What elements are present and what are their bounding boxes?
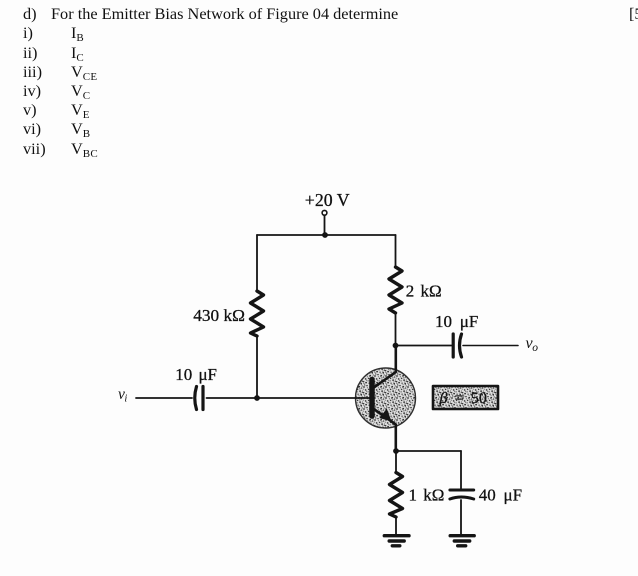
supply terminal circle [322, 210, 327, 215]
label 10 uF input [175, 365, 217, 384]
capacitor 40 uF bypass [450, 490, 474, 499]
resistor 2 kOhm [389, 267, 402, 313]
list item iv) VC [23, 81, 41, 101]
list item iii) VCE [23, 62, 42, 82]
transistor Q1 circle body [356, 368, 416, 428]
list item i) IB [23, 23, 33, 43]
svg-text:430 kΩ: 430 kΩ [193, 306, 245, 325]
wire emitter node to 1k resistor [395, 451, 397, 473]
wire right branch upper [395, 235, 397, 267]
svg-text:10 μF: 10 μF [175, 365, 217, 384]
wire 40uF to ground [460, 500, 462, 535]
node collector junction [393, 343, 399, 349]
list item v) VE [23, 100, 37, 120]
svg-text:vo: vo [526, 335, 539, 354]
node emitter junction [393, 448, 399, 454]
wire collector node to output cap [396, 345, 452, 347]
svg-text:vi: vi [118, 386, 127, 405]
list item ii) IC [23, 43, 37, 63]
transistor emitter arrowhead [379, 409, 391, 422]
label 430 kOhm [193, 306, 245, 325]
transistor collector lead [375, 346, 396, 388]
wire 2k to collector node [395, 313, 397, 346]
wire top rail [257, 234, 396, 236]
label 1 kOhm [409, 486, 445, 505]
node base junction [254, 395, 260, 401]
label vo output [526, 335, 539, 354]
wire left branch upper [256, 235, 258, 291]
svg-text:10 μF: 10 μF [435, 312, 478, 331]
list item vi) VB [23, 119, 41, 139]
ground right [450, 536, 474, 546]
wire left branch lower [256, 336, 258, 398]
wire emitter node to bypass branch [396, 450, 461, 452]
ground left [384, 536, 409, 546]
wire vi to input cap [136, 397, 192, 399]
svg-text:40 μF: 40 μF [479, 486, 522, 505]
wire output cap to vo [463, 345, 518, 347]
resistor 430 kOhm [251, 291, 264, 336]
svg-text:β = 50: β = 50 [439, 389, 487, 407]
label 10 uF output [435, 312, 478, 331]
label vi input [118, 386, 127, 405]
svg-text:+20 V: +20 V [305, 190, 350, 210]
wire base node to transistor [257, 397, 370, 399]
wire 1k to ground [395, 517, 397, 535]
capacitor 10 uF input [195, 387, 203, 410]
transistor emitter lead [375, 410, 396, 452]
label 2 kOhm [406, 281, 442, 300]
svg-text:2 kΩ: 2 kΩ [406, 281, 442, 300]
node supply junction [322, 232, 328, 238]
marks bracket [5 clipped at right edge [629, 4, 638, 24]
wire bypass branch down [460, 451, 462, 489]
capacitor 10 uF output [453, 334, 461, 357]
resistor 1 kOhm [390, 473, 403, 518]
wire input cap to base node [207, 397, 258, 399]
svg-text:1 kΩ: 1 kΩ [409, 486, 445, 505]
+20 V label [305, 190, 350, 210]
transistor base bar [369, 380, 375, 417]
list item vii) VBC [23, 139, 46, 159]
label 40 uF [479, 486, 522, 505]
question line d) [23, 4, 37, 24]
wire supply stub [324, 215, 326, 235]
beta = 50 callout box [433, 386, 498, 409]
